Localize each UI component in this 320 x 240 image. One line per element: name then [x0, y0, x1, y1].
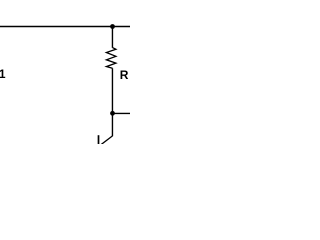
resistor R (zigzag body) [106, 48, 116, 69]
wire: horizontal stub to the right from lower node [113, 112, 131, 114]
svg-text:1: 1 [0, 67, 6, 81]
transistor Q1 base bar (partially cropped) [98, 135, 100, 144]
wire: vertical from top node to resistor [111, 27, 113, 48]
wire: vertical from resistor to lower node and on to transistor collector [111, 68, 113, 136]
svg-text:R: R [120, 68, 129, 82]
transistor Q1 collector lead (diagonal, partially cropped) [101, 136, 112, 145]
node: junction dot at collector net [110, 111, 115, 116]
wire: top horizontal net [0, 25, 130, 27]
node: junction dot at top of R [110, 24, 115, 29]
